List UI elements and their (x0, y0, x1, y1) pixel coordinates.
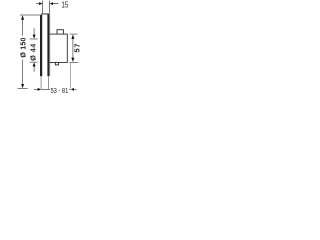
svg-text:15: 15 (61, 0, 68, 9)
svg-text:53 - 81: 53 - 81 (51, 86, 69, 95)
svg-text:Ø 44: Ø 44 (29, 43, 38, 61)
svg-text:Ø 150: Ø 150 (19, 37, 27, 57)
svg-text:57: 57 (72, 43, 81, 53)
